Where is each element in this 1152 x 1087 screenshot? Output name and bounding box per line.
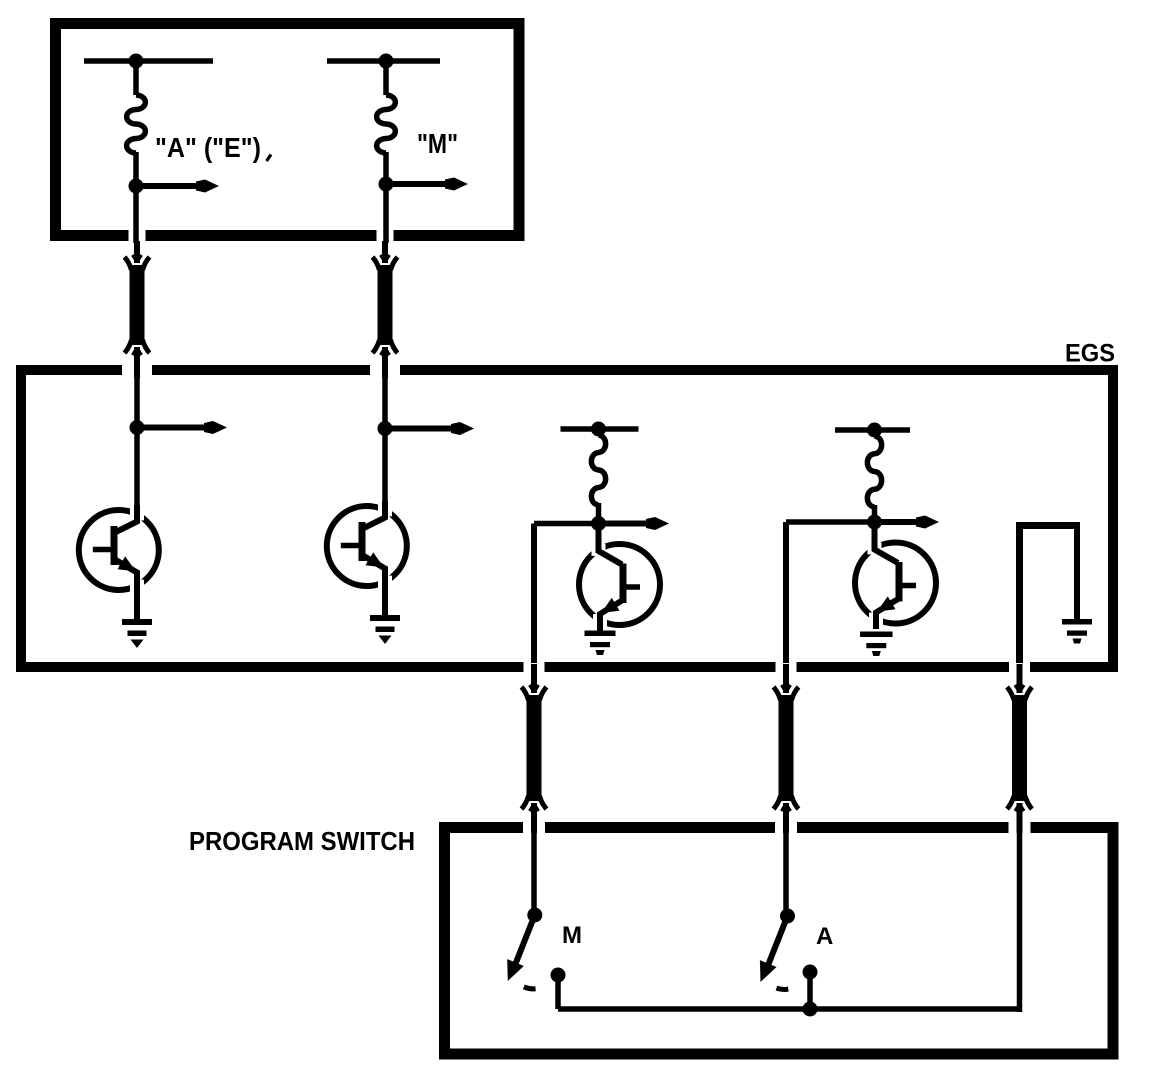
- wire out of connector: [782, 804, 787, 811]
- junction Q1 base node: [130, 420, 145, 435]
- box: program switch: [445, 828, 1114, 1055]
- node: Q4 supply bar: [835, 427, 910, 433]
- wire: [382, 429, 388, 504]
- lamp resistor "M": [383, 61, 389, 95]
- junction Q3: [591, 516, 606, 531]
- node: lamp A supply bar: [84, 58, 213, 64]
- wire: to program switch A: [786, 519, 875, 525]
- connector: [1012, 695, 1027, 801]
- transistor Q4: [855, 521, 936, 629]
- box: instrument cluster: [56, 24, 520, 236]
- connector: [779, 695, 794, 801]
- wire: into EGS col1: [134, 375, 140, 428]
- wire into connector: [783, 664, 789, 693]
- wire: [133, 152, 139, 186]
- wire out of connector: [133, 348, 138, 355]
- wire out of connector: [530, 804, 535, 811]
- box: EGS ECU: [21, 370, 1113, 667]
- wire: [383, 184, 389, 243]
- transistor Q2: [327, 501, 407, 615]
- svg-text:EGS: EGS: [1065, 340, 1115, 368]
- junction Q2 node: [378, 421, 393, 436]
- border gaps: [129, 229, 146, 242]
- connector: [130, 265, 145, 345]
- node: lamp M supply bar: [327, 58, 440, 64]
- transistor Q1: [79, 505, 159, 619]
- wire: A contact to common: [807, 972, 813, 1009]
- ground Q3: [585, 631, 616, 637]
- svg-text:"A" ("E"): "A" ("E"): [155, 132, 261, 163]
- wire out of connector: [1015, 804, 1020, 811]
- wire: A column in switch box: [783, 830, 789, 916]
- switch M: [507, 908, 582, 989]
- transistor Q3: [579, 523, 660, 631]
- svg-text:"M": "M": [417, 128, 458, 159]
- junction: A to common: [803, 1002, 818, 1017]
- wire: [133, 186, 139, 243]
- wire into connector: [1017, 664, 1023, 693]
- wire into connector: [382, 241, 388, 263]
- ground: EGS internal: [1062, 619, 1092, 625]
- junction + arrow (to gauge): [129, 179, 144, 194]
- junction Q4: [867, 515, 882, 530]
- wire: common up to connector: [1017, 830, 1023, 1012]
- wire: switch common return: [1016, 526, 1023, 664]
- wire into connector: [134, 241, 140, 263]
- wire: common bus: [558, 1006, 1020, 1012]
- node: Q3 supply bar: [561, 426, 639, 432]
- wire: M column in switch box: [531, 830, 537, 915]
- svg-text:PROGRAM SWITCH: PROGRAM SWITCH: [189, 826, 415, 856]
- connector: [378, 265, 393, 345]
- wire: [134, 428, 140, 508]
- junction + arrow: [379, 177, 394, 192]
- svg-text:M: M: [562, 922, 582, 949]
- lamp resistor "A"("E"): [133, 61, 139, 95]
- wire: M contact to common: [555, 975, 561, 1009]
- wire out of connector: [381, 348, 386, 355]
- connector: [527, 695, 542, 801]
- ground Q1: [122, 619, 152, 625]
- wire: [383, 152, 389, 184]
- resistor R3: [591, 435, 605, 505]
- svg-text:A: A: [816, 923, 833, 950]
- ground Q2: [370, 615, 400, 621]
- wire into connector: [531, 664, 537, 693]
- switch A: [760, 909, 833, 990]
- resistor R4: [867, 436, 881, 507]
- ground Q4: [860, 632, 893, 638]
- wire: to program switch M: [534, 521, 599, 527]
- wire: into EGS col2: [382, 375, 388, 429]
